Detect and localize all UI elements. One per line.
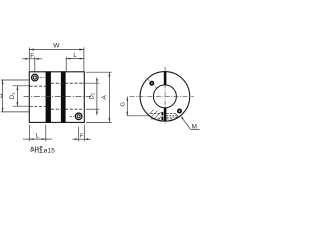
svg-text:F: F — [80, 133, 84, 139]
disc screw hole lower-right — [177, 109, 182, 114]
hatching at slit — [150, 110, 162, 121]
dimension L (top right) — [66, 57, 84, 72]
far-left diameter dimension (label clipped at image edge) — [1, 80, 29, 112]
svg-text:M: M — [192, 124, 197, 131]
svg-text:D1: D1 — [10, 92, 16, 99]
vertical centerline — [164, 67, 166, 125]
clamp screw left hub (socket head, end view) — [32, 74, 39, 81]
svg-text:A: A — [101, 95, 108, 100]
disc screw hole upper-left — [148, 79, 157, 88]
svg-text:G: G — [121, 101, 127, 106]
svg-text:ø15: ø15 — [43, 148, 55, 155]
coupling body outline — [29, 72, 84, 123]
leader M (clamp screw) — [181, 116, 200, 129]
svg-text:F: F — [30, 53, 34, 60]
svg-text:D2: D2 — [90, 92, 96, 99]
clamp screw counterbore edges — [162, 112, 164, 116]
note text (outer dia) — [30, 146, 42, 153]
bore circle — [153, 85, 176, 108]
hidden bore lines right hub — [51, 82, 84, 84]
horizontal centerline — [130, 95, 194, 97]
dimension D1 (left bore) — [13, 86, 29, 106]
dimension L (bottom left) — [23, 125, 52, 142]
outer circle — [140, 72, 190, 122]
dimension D2 (right bore) — [83, 77, 100, 115]
slit bottom — [164, 108, 167, 121]
dimension A (outer diameter) — [86, 72, 112, 122]
hidden bore lines left hub — [30, 85, 46, 87]
centerline (shaft axis) — [24, 96, 92, 98]
slit top — [164, 72, 167, 85]
clamp screw hole hidden lines (bottom) — [151, 114, 178, 119]
disc element band 1 — [46, 71, 51, 122]
dimension F (bottom right) — [72, 125, 90, 142]
disc element band 2 — [61, 71, 66, 122]
clamp screw right hub (socket head, end view) — [75, 113, 82, 120]
screw centerline right — [69, 115, 74, 117]
dimension F (top) — [22, 57, 42, 72]
screw centerline left — [40, 77, 45, 79]
dimension W — [29, 47, 84, 71]
svg-text:W: W — [53, 42, 60, 49]
dimension G — [126, 97, 150, 116]
